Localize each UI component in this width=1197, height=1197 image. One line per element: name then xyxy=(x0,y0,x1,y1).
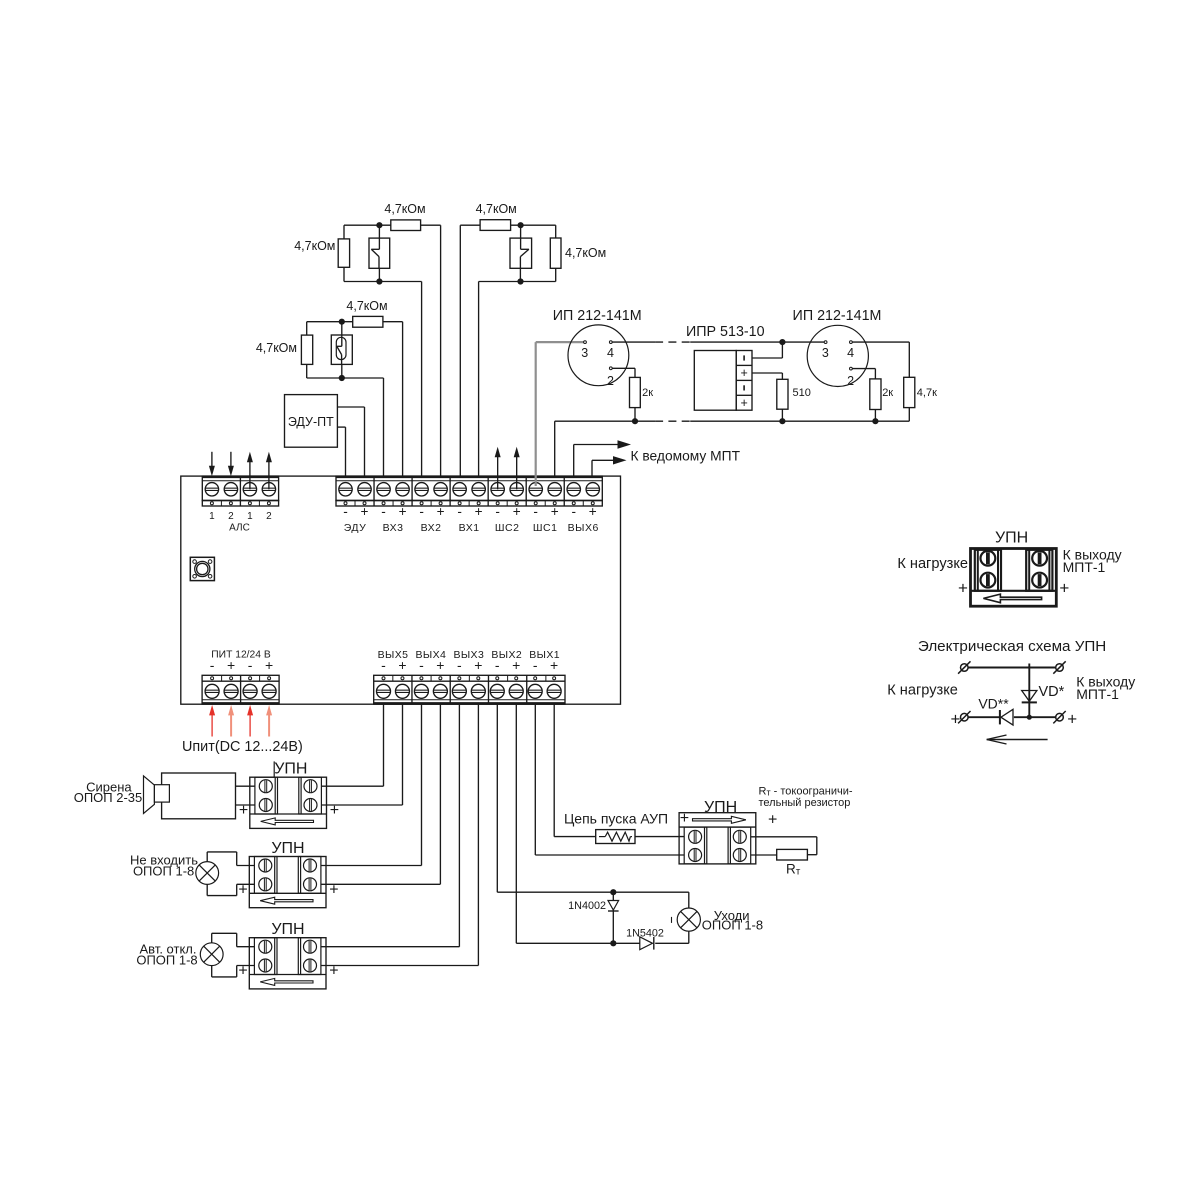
svg-text:+: + xyxy=(513,504,521,519)
junction dot 2к #2 xyxy=(872,418,878,424)
svg-text:ВЫХ5: ВЫХ5 xyxy=(378,649,409,661)
svg-text:+: + xyxy=(951,709,961,728)
svg-text:+: + xyxy=(958,579,968,598)
svg-text:К нагрузке: К нагрузке xyxy=(887,683,958,699)
svg-text:4,7кОм: 4,7кОм xyxy=(476,202,517,216)
wire pin2 det2 to 2к #2 xyxy=(852,369,875,379)
svg-text:-: - xyxy=(571,504,576,519)
svg-text:4,7кОм: 4,7кОм xyxy=(384,202,425,216)
wire ИПР cell2 to resistor 510 xyxy=(752,373,782,379)
svg-text:ЭДУ-ПТ: ЭДУ-ПТ xyxy=(288,415,334,429)
svg-text:ВЫХ1: ВЫХ1 xyxy=(529,649,560,661)
node labels 1 2 1 2 for АЛС xyxy=(209,511,272,522)
terminal strip bottom: ВЫХ5 ВЫХ4 ВЫХ3 ВЫХ2 ВЫХ1 xyxy=(374,675,565,704)
svg-text:+: + xyxy=(740,366,747,380)
resistor 2к #2 xyxy=(870,379,881,410)
svg-text:4,7кОм: 4,7кОм xyxy=(256,341,297,355)
svg-text:2к: 2к xyxy=(882,387,893,399)
svg-text:ВЫХ6: ВЫХ6 xyxy=(568,522,599,534)
pin 4 of detector 1 xyxy=(609,341,612,344)
NC thermal contact S1 (ВХ2) xyxy=(369,238,390,268)
svg-text:УПН: УПН xyxy=(271,840,304,857)
svg-text:1N5402: 1N5402 xyxy=(626,928,664,940)
wires ВЫХ6 to master output arrows xyxy=(574,440,631,476)
svg-text:ОПОП 1-8: ОПОП 1-8 xyxy=(133,863,194,878)
svg-text:2: 2 xyxy=(266,511,272,522)
svg-text:VD*: VD* xyxy=(1039,684,1065,700)
svg-text:ВЫХ4: ВЫХ4 xyxy=(416,649,447,661)
УПН module #3 (Авт. откл.) xyxy=(249,938,326,989)
svg-text:-: - xyxy=(457,504,462,519)
top loop wire with dashed break xyxy=(612,341,825,343)
svg-text:К нагрузке: К нагрузке xyxy=(897,556,968,572)
svg-text:МПТ-1: МПТ-1 xyxy=(1076,686,1119,702)
svg-text:-: - xyxy=(419,504,424,519)
svg-text:ШС1: ШС1 xyxy=(533,522,558,534)
siren ОПОП 2-35 body xyxy=(162,773,236,819)
wire pin2 to resistor 2к #1 xyxy=(612,368,635,377)
svg-text:1N4002: 1N4002 xyxy=(568,900,606,912)
resistor R2 4,7кОм vertical (ВХ2) xyxy=(338,239,349,267)
terminal block ALS (АЛС) xyxy=(202,476,278,506)
wire 2к #1 to bottom loop xyxy=(634,408,636,422)
svg-text:+: + xyxy=(1067,709,1077,728)
svg-text:-: - xyxy=(381,504,386,519)
svg-text:ИПР 513-10: ИПР 513-10 xyxy=(686,324,765,340)
junction dots at 510 branch xyxy=(779,339,785,345)
wires УПН4 to Rт xyxy=(751,837,817,855)
УПН module #2 (Не входить) xyxy=(249,857,326,908)
smoke detector ИП 212-141М #1 xyxy=(568,325,629,386)
resistor R3 4,7кОм horizontal (ВХ3) xyxy=(353,316,383,327)
svg-text:4,7кОм: 4,7кОм xyxy=(565,246,606,260)
grey wire ШС1- to detector pin 3 xyxy=(536,342,584,486)
svg-text:ИП 212-141М: ИП 212-141М xyxy=(793,308,882,324)
tick mark left of Уходи lamp xyxy=(671,917,673,923)
svg-text:УПН: УПН xyxy=(704,799,737,816)
svg-text:ОПОП 2-35: ОПОП 2-35 xyxy=(74,790,143,805)
svg-text:+: + xyxy=(768,812,777,829)
tick mark before УПН #1 label xyxy=(273,761,275,777)
svg-text:VD**: VD** xyxy=(978,696,1009,712)
smoke detector ИП 212-141М #2 xyxy=(807,325,868,386)
wires lamp2 to УПН2 xyxy=(207,852,254,896)
polarity labels - + bottom strip xyxy=(381,657,558,673)
manual call point ИПР 513-10 xyxy=(694,351,752,411)
diode 1N5402 (horizontal) xyxy=(640,937,654,950)
wire 510 to bottom loop xyxy=(781,409,783,421)
launch circuit resistor (zigzag) xyxy=(596,830,635,844)
main panel MPT-1 board outline xyxy=(181,476,621,704)
wires siren to УПН1 xyxy=(236,786,255,805)
resistor R5 4,7кОм horizontal (ВХ1) xyxy=(480,220,511,231)
resistor 2к #1 xyxy=(630,377,641,407)
wires ВЫХ2 to diode network xyxy=(497,704,689,943)
bottom loop wire with dashed break xyxy=(555,420,910,422)
svg-text:+: + xyxy=(1059,579,1069,598)
wires ВХ3 network xyxy=(307,322,403,476)
svg-text:-: - xyxy=(210,657,215,673)
svg-text:+: + xyxy=(589,504,597,519)
thermal lock contact S2 (ЭДУ-ПТ, ВХ3) xyxy=(331,335,352,364)
svg-text:2: 2 xyxy=(228,511,234,522)
device ЭДУ-ПТ box xyxy=(285,395,338,448)
button SW1 (reset button on board) xyxy=(190,557,214,580)
svg-text:4,7к: 4,7к xyxy=(917,387,937,399)
svg-text:УПН: УПН xyxy=(995,530,1028,547)
terminal strip ПИТ 12/24 В xyxy=(202,675,279,704)
resistor 510 xyxy=(777,379,788,409)
svg-text:Rт - токоограничи-: Rт - токоограничи- xyxy=(759,786,853,798)
svg-text:ВХ3: ВХ3 xyxy=(383,522,404,534)
lamp Авт. откл. ОПОП 1-8 xyxy=(200,943,223,966)
УПН module #4 (АУП) xyxy=(679,813,756,864)
svg-text:ВХ1: ВХ1 xyxy=(459,522,480,534)
junction dot 2к #1 xyxy=(632,418,638,424)
svg-text:+: + xyxy=(227,657,235,673)
svg-text:3: 3 xyxy=(581,346,588,360)
svg-text:+: + xyxy=(437,504,445,519)
svg-text:АЛС: АЛС xyxy=(229,523,250,534)
resistor R4 4,7кОм vertical (ВХ3) xyxy=(301,335,312,364)
siren speaker symbol xyxy=(144,776,170,814)
УПН reference module (bold) xyxy=(971,549,1057,607)
svg-text:К ведомому МПТ: К ведомому МПТ xyxy=(631,449,741,464)
svg-text:Uпит(DC 12...24В): Uпит(DC 12...24В) xyxy=(182,739,303,755)
svg-text:4: 4 xyxy=(847,346,854,360)
diode VD* (vertical) xyxy=(1022,664,1037,718)
svg-text:+: + xyxy=(361,504,369,519)
junction dots ВХ2 xyxy=(376,222,382,228)
svg-text:ОПОП 1-8: ОПОП 1-8 xyxy=(136,953,197,968)
svg-text:тельный резистор: тельный резистор xyxy=(759,797,851,809)
wire 4,7к to bottom loop xyxy=(908,408,910,422)
svg-text:МПТ-1: МПТ-1 xyxy=(1063,559,1106,575)
svg-text:2к: 2к xyxy=(642,387,653,399)
wires УПН3 to ВЫХ3 xyxy=(321,704,479,965)
svg-text:4,7кОм: 4,7кОм xyxy=(294,239,335,253)
svg-text:+: + xyxy=(551,504,559,519)
ИПР terminal marks - + - + xyxy=(740,355,747,409)
svg-text:+: + xyxy=(475,504,483,519)
svg-text:510: 510 xyxy=(793,387,811,399)
svg-text:-: - xyxy=(248,657,253,673)
svg-text:1: 1 xyxy=(247,511,253,522)
schematic bottom wire with terminals xyxy=(958,711,1066,723)
wires ЭДУ-ПТ to ЭДУ terminals xyxy=(337,407,364,476)
pin 4 of detector 2 xyxy=(850,341,853,344)
pin 3 of detector 2 xyxy=(824,341,827,344)
wires ВХ2 network xyxy=(344,225,441,476)
svg-text:-: - xyxy=(495,504,500,519)
svg-text:Цепь пуска АУП: Цепь пуска АУП xyxy=(564,811,668,827)
polarity labels - + for top strip xyxy=(343,504,597,519)
labels ВЫХ5..ВЫХ1 xyxy=(378,649,560,661)
svg-text:4: 4 xyxy=(607,346,614,360)
pin 3 of detector 1 xyxy=(584,341,587,344)
wire arrows into АЛС1 (down arrows) xyxy=(209,452,234,476)
junction dots diode network xyxy=(610,889,616,895)
svg-text:ВЫХ2: ВЫХ2 xyxy=(491,649,522,661)
wires ВЫХ1 to АУП resistor to УПН4 xyxy=(535,704,684,855)
svg-text:+: + xyxy=(399,504,407,519)
svg-text:ИП 212-141М: ИП 212-141М xyxy=(553,308,642,324)
diode VD** (horizontal, pointing left) xyxy=(1000,709,1013,725)
svg-text:-: - xyxy=(343,504,348,519)
lamp Уходи ОПОП 1-8 xyxy=(677,908,700,931)
svg-text:ПИТ 12/24 В: ПИТ 12/24 В xyxy=(211,650,271,661)
NC thermal contact S3 (ВХ1, mirrored) xyxy=(510,238,532,268)
wire 2к #2 to bottom loop xyxy=(874,410,876,422)
lamp Не входить ОПОП 1-8 xyxy=(196,862,219,885)
resistor Rт xyxy=(777,849,808,860)
wire ШС1+ riser xyxy=(554,421,556,476)
svg-text:3: 3 xyxy=(822,346,829,360)
svg-text:+: + xyxy=(680,810,689,827)
svg-text:ВЫХ3: ВЫХ3 xyxy=(453,649,484,661)
wire ИПР cell1 to top loop xyxy=(752,342,782,358)
wires lamp3 to УПН3 xyxy=(212,933,255,977)
wires УПН1 to ВЫХ5 xyxy=(321,704,402,805)
junction dots ВХ1 xyxy=(518,222,524,228)
wire arrows out of АЛС2 (up arrows) xyxy=(247,452,272,490)
svg-text:ОПОП 1-8: ОПОП 1-8 xyxy=(702,918,763,933)
wires ВХ1 network xyxy=(460,225,555,476)
svg-text:4,7кОм: 4,7кОм xyxy=(346,299,387,313)
terminal strip top: ЭДУ ВХ3 ВХ2 ВХ1 ШС2 ШС1 ВЫХ6 xyxy=(336,476,602,506)
svg-text:+: + xyxy=(265,657,273,673)
svg-text:УПН: УПН xyxy=(271,921,304,938)
svg-text:ВХ2: ВХ2 xyxy=(421,522,442,534)
labels ЭДУ ВХ3 ВХ2 ВХ1 ШС2 ШС1 ВЫХ6 xyxy=(344,522,599,534)
svg-text:-: - xyxy=(533,504,538,519)
wire arrows out of ШС2 terminals (up arrows) xyxy=(495,447,520,490)
svg-text:+: + xyxy=(740,396,747,410)
junction dot schematic xyxy=(1027,715,1032,720)
direction arrow (schematic) xyxy=(987,735,1048,744)
power input arrows Uпит (red) xyxy=(209,705,272,737)
svg-text:ШС2: ШС2 xyxy=(495,522,520,534)
diode 1N4002 (vertical) xyxy=(608,892,619,943)
svg-text:1: 1 xyxy=(209,511,215,522)
resistor 4,7к terminating xyxy=(904,377,915,407)
svg-text:Электрическая схема УПН: Электрическая схема УПН xyxy=(918,638,1106,655)
wires УПН2 to ВЫХ4 xyxy=(321,704,441,884)
wire pin4 det2 to 4,7к xyxy=(852,342,909,377)
УПН module #1 (siren) xyxy=(250,777,327,828)
junction dots ВХ3 xyxy=(339,319,345,325)
schematic top wire with terminals xyxy=(958,661,1066,673)
pin 2 of detector 1 xyxy=(609,367,612,370)
svg-text:2: 2 xyxy=(607,374,614,388)
resistor R6 4,7кОм vertical (ВХ1) xyxy=(550,238,561,268)
svg-text:2: 2 xyxy=(847,374,854,388)
svg-text:УПН: УПН xyxy=(274,761,307,778)
svg-text:ЭДУ: ЭДУ xyxy=(344,522,367,534)
pin 2 of detector 2 xyxy=(850,367,853,370)
resistor R1 4,7кОм horizontal (ВХ2) xyxy=(391,220,421,231)
polarity labels - + - + for ПИТ xyxy=(210,657,273,673)
